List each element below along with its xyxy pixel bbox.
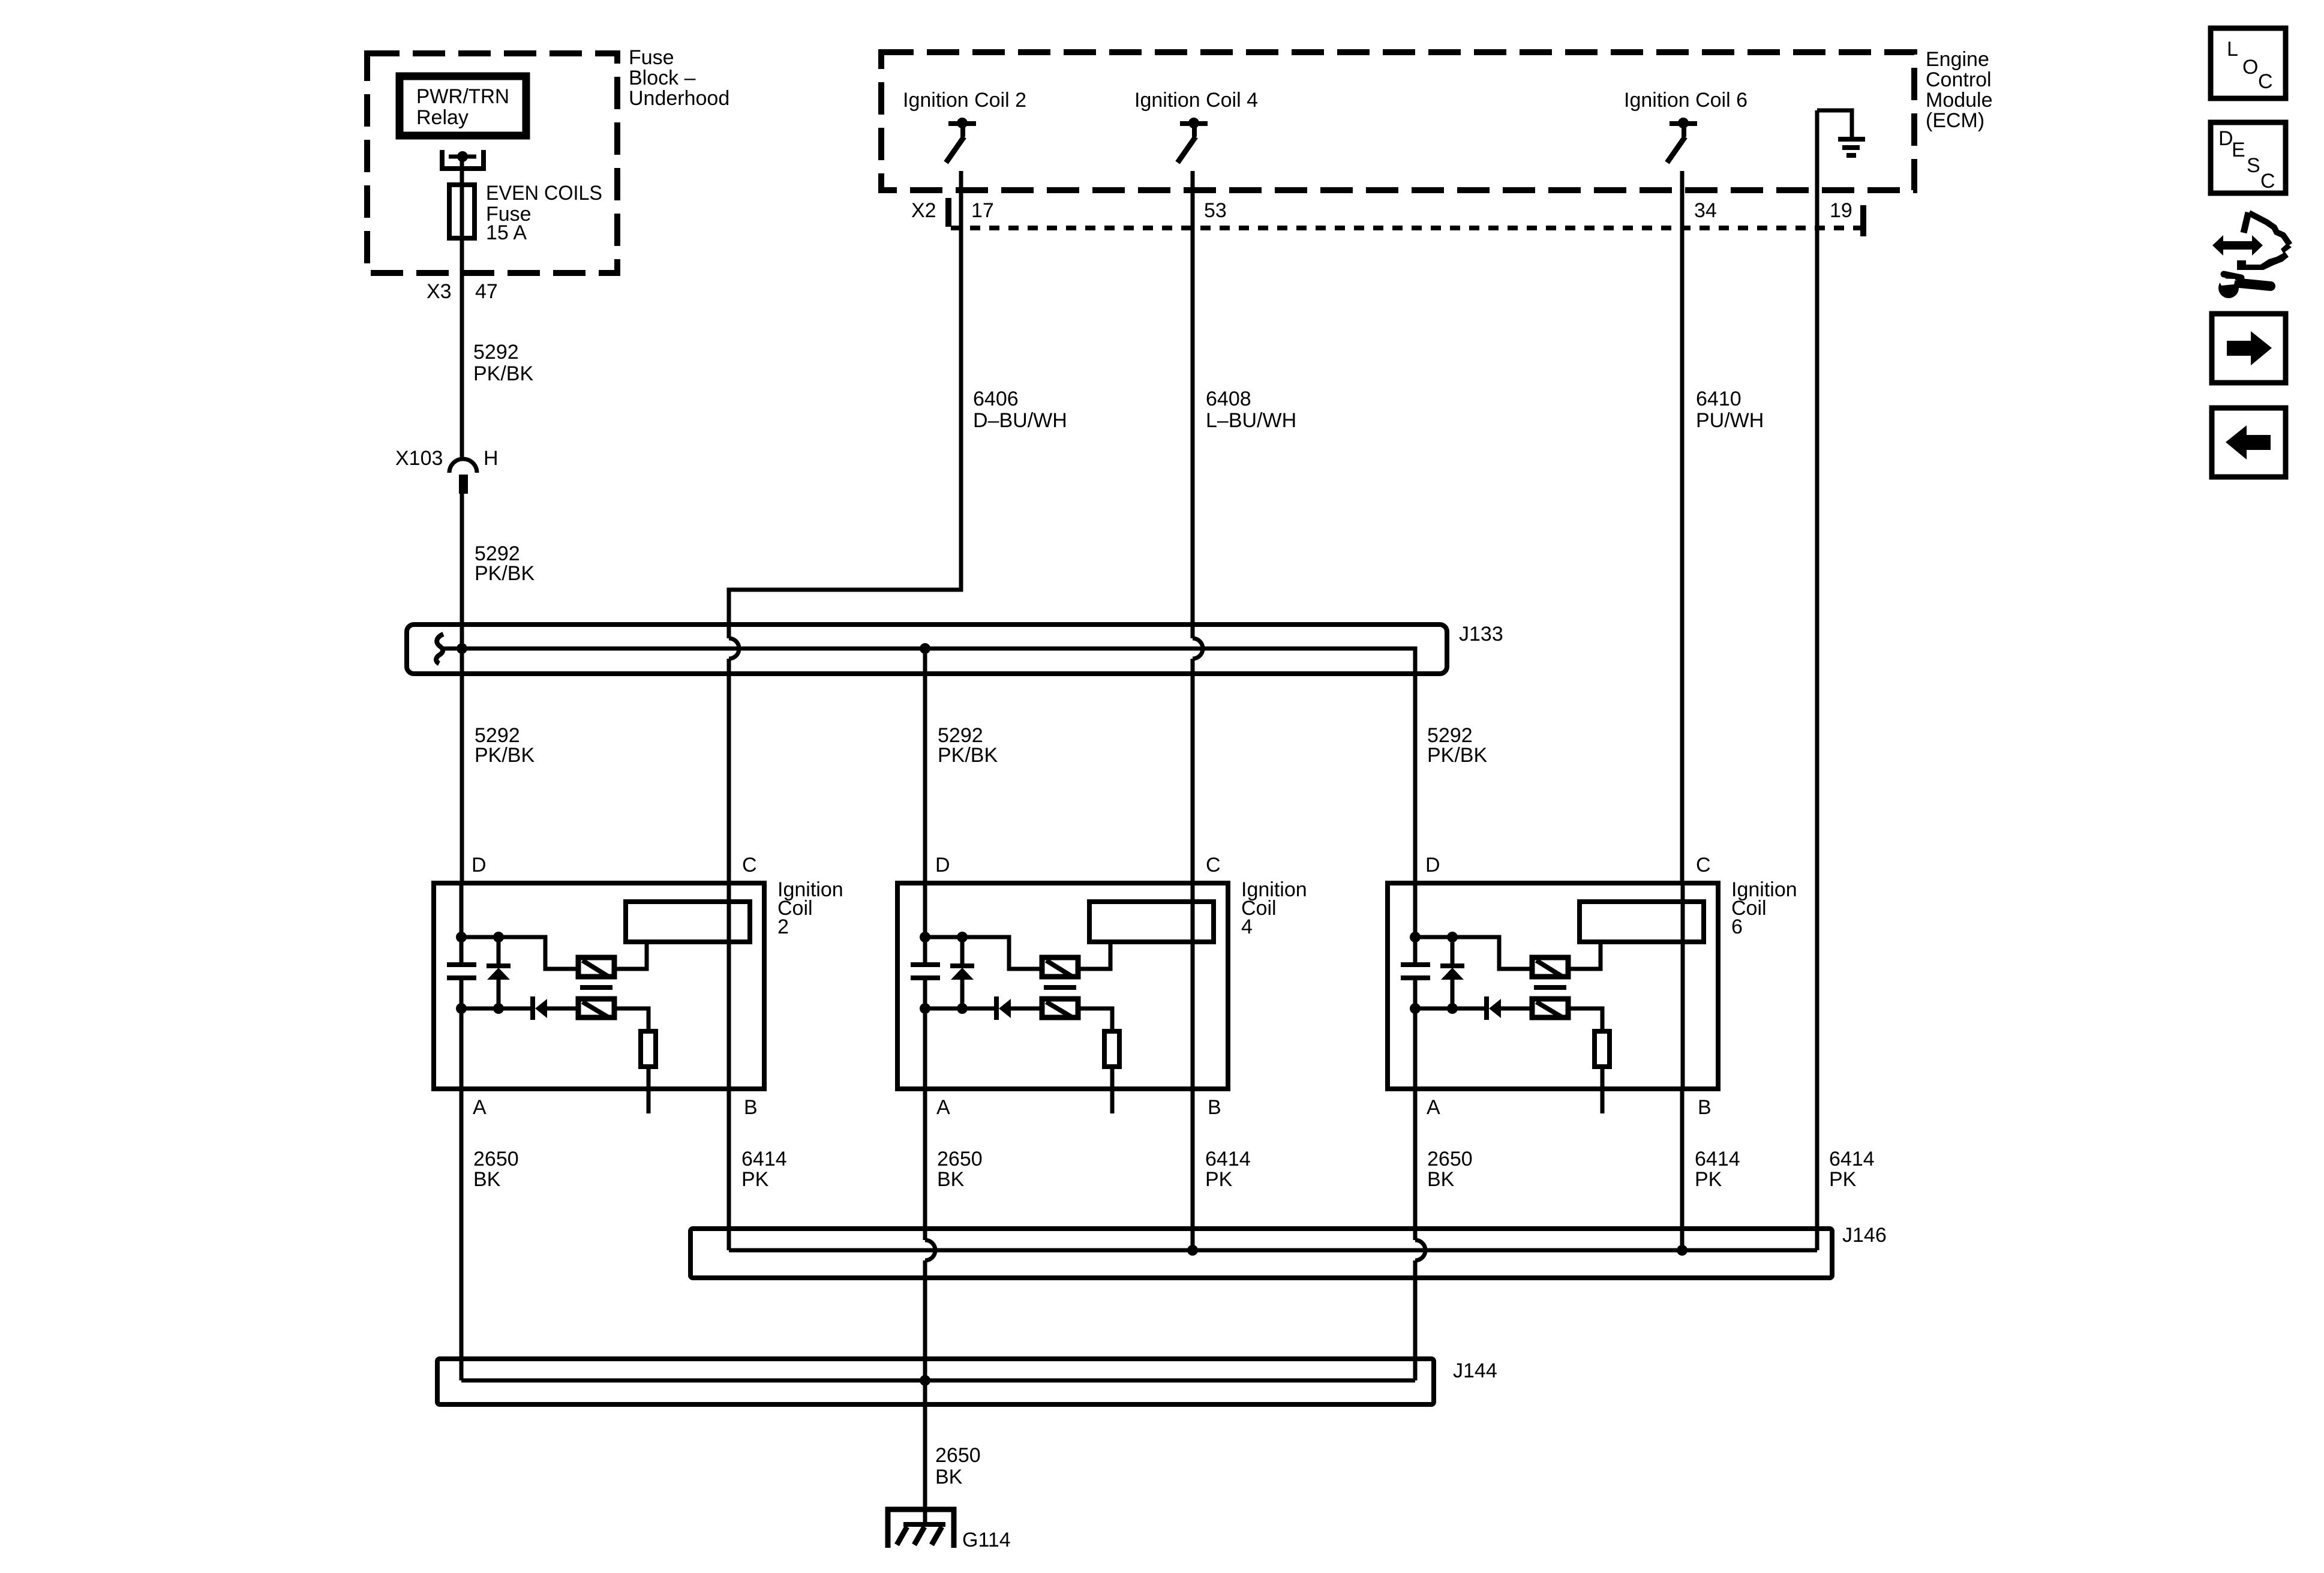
C to B through wire (1681, 883, 1685, 1089)
wire winding to secondary (1569, 942, 1601, 969)
wire winding to resistor (1595, 1031, 1610, 1067)
pin A wire inside (460, 1008, 464, 1089)
ECM driver Ignition Coil 6 (1624, 89, 1747, 163)
diagnostic hand-wrench icon (2212, 212, 2292, 298)
svg-text:BK: BK (1427, 1168, 1455, 1191)
wire label 2650 BK to ground (935, 1444, 981, 1488)
wire node to primary winding (461, 937, 577, 969)
svg-text:X2: X2 (911, 199, 936, 222)
svg-text:Control: Control (1926, 68, 1992, 91)
wire coil3 B 6414 PK to J146 (1682, 1089, 1740, 1250)
connector X3 pin 47 labels (427, 280, 498, 303)
coil 2 housing (434, 883, 764, 1089)
J144 bus wire (461, 1379, 1415, 1383)
svg-text:C: C (2258, 70, 2273, 93)
svg-text:G114: G114 (962, 1529, 1011, 1551)
fuse F1 EVEN COILS 15A (449, 182, 602, 244)
D feed wire inside (460, 883, 464, 937)
svg-text:47: 47 (475, 280, 498, 303)
zener diode (960, 937, 965, 965)
wire winding to resistor (615, 1008, 648, 1031)
svg-text:5292: 5292 (473, 341, 519, 364)
svg-text:BK: BK (935, 1466, 963, 1488)
svg-text:PK: PK (1829, 1168, 1857, 1191)
svg-text:6410: 6410 (1696, 388, 1742, 410)
diode (1484, 996, 1489, 1020)
node dots (1410, 932, 1421, 942)
svg-text:B: B (1208, 1096, 1221, 1119)
svg-text:PK/BK: PK/BK (938, 744, 998, 767)
wire 6410 PU/WH pin34 to coil3 C (1682, 171, 1764, 883)
svg-text:(ECM): (ECM) (1926, 109, 1984, 132)
wire coil2 A 2650 BK to J144 and G114, hop over J146 (925, 1089, 983, 1524)
ECM driver Ignition Coil 2 (903, 89, 1026, 163)
svg-text:PWR/TRN: PWR/TRN (416, 85, 509, 108)
svg-text:6406: 6406 (973, 388, 1019, 410)
wire label 5292 PK/BK upper (473, 341, 533, 385)
svg-text:Underhood: Underhood (629, 87, 729, 110)
svg-text:D–BU/WH: D–BU/WH (973, 409, 1067, 432)
wire relay to fuse (460, 157, 464, 185)
wire coil2 B 6414 PK to J146 (1193, 1089, 1251, 1250)
pin 19 label and tick (1830, 199, 1863, 236)
splice pack J133 body (407, 625, 1447, 674)
J133 bus line and branch to coil3 D (442, 649, 1415, 883)
svg-text:19: 19 (1830, 199, 1852, 222)
svg-text:A: A (473, 1096, 487, 1119)
ECM dashed box (881, 52, 1914, 190)
svg-text:S: S (2247, 154, 2260, 177)
svg-text:PK/BK: PK/BK (473, 362, 533, 385)
ECM internal ground symbol (1817, 110, 1865, 155)
svg-text:EVEN COILS: EVEN COILS (486, 182, 602, 205)
capacitor C (923, 937, 927, 962)
svg-text:B: B (744, 1096, 758, 1119)
node dots (456, 932, 467, 942)
wire node to primary winding (1415, 937, 1531, 969)
wire coil3 A 2650 BK to J144, hop over J146 (1415, 1089, 1473, 1380)
svg-text:D: D (472, 854, 487, 876)
primary winding box (578, 957, 614, 977)
lower wire node to diode (1415, 1007, 1484, 1011)
spark output stub (1110, 1067, 1115, 1113)
ignition coil 4 assembly (897, 854, 1307, 1119)
wire node to primary winding (925, 937, 1041, 969)
svg-text:2650: 2650 (473, 1148, 519, 1170)
core lines (1534, 985, 1566, 990)
svg-text:J133: J133 (1459, 623, 1503, 646)
zener diode (1451, 937, 1455, 965)
secondary winding rectangle (626, 902, 750, 942)
spark output stub (1601, 1067, 1605, 1113)
node dots (920, 932, 930, 942)
svg-text:L–BU/WH: L–BU/WH (1206, 409, 1296, 432)
wire X103 to J133 to coil D, 5292 PK/BK (460, 494, 464, 883)
svg-text:2: 2 (777, 915, 789, 938)
lower wire node to diode (461, 1007, 530, 1011)
coil 6 housing (1388, 883, 1718, 1089)
svg-text:O: O (2242, 56, 2258, 79)
svg-text:A: A (936, 1096, 950, 1119)
ignition coil 2 assembly (434, 854, 843, 1119)
X2 connector dotted line (951, 226, 1863, 230)
J133 bus open-end curl (436, 634, 443, 664)
C to B through wire (727, 883, 731, 1089)
DESC icon box (2211, 122, 2286, 193)
wire 6406 D-BU/WH pin17 to coil1 C with hop over J133 (729, 171, 1067, 883)
svg-text:PK: PK (741, 1168, 769, 1191)
spark output stub (647, 1067, 651, 1113)
svg-text:53: 53 (1204, 199, 1227, 222)
ignition coil 6 assembly (1388, 854, 1797, 1119)
svg-text:4: 4 (1241, 915, 1253, 938)
C to B through wire (1191, 883, 1195, 1089)
svg-text:PK: PK (1205, 1168, 1233, 1191)
fuse block label (629, 46, 729, 110)
secondary drive winding box (1532, 999, 1568, 1017)
svg-text:B: B (1698, 1096, 1712, 1119)
svg-text:34: 34 (1694, 199, 1717, 222)
svg-text:6408: 6408 (1206, 388, 1251, 410)
svg-text:6414: 6414 (741, 1148, 787, 1170)
svg-text:D: D (2218, 127, 2233, 150)
capacitor C (1413, 937, 1418, 962)
svg-text:6414: 6414 (1205, 1148, 1251, 1170)
svg-text:Module: Module (1926, 89, 1993, 112)
secondary winding rectangle (1580, 902, 1704, 942)
lower wire node to diode (925, 1007, 994, 1011)
junction dot J133 to coil1 D (457, 643, 467, 654)
svg-text:2650: 2650 (935, 1444, 981, 1467)
fuse block dashed box (367, 53, 617, 273)
junction dot J146 coil3 B (1677, 1245, 1688, 1256)
svg-text:Engine: Engine (1926, 48, 1989, 71)
svg-text:C: C (1696, 854, 1711, 876)
primary winding box (1042, 957, 1078, 977)
wire 6408 L-BU/WH pin53 to coil2 C with hop over J133 (1193, 171, 1296, 883)
svg-text:Block –: Block – (629, 67, 696, 89)
secondary drive winding box (1042, 999, 1078, 1017)
svg-text:D: D (1425, 854, 1440, 876)
resistor (641, 1031, 656, 1067)
svg-text:2650: 2650 (937, 1148, 983, 1170)
forward arrow icon box (2212, 314, 2286, 383)
svg-text:E: E (2232, 139, 2245, 161)
svg-text:PK/BK: PK/BK (475, 562, 535, 585)
svg-text:C: C (2260, 170, 2275, 193)
svg-text:2650: 2650 (1427, 1148, 1473, 1170)
svg-text:L: L (2227, 38, 2238, 61)
ECM driver Ignition Coil 4 (1134, 89, 1258, 163)
capacitor C (460, 937, 464, 962)
splice pack J144 body (437, 1359, 1434, 1404)
resistor (1104, 1031, 1119, 1067)
svg-text:Ignition Coil 2: Ignition Coil 2 (903, 89, 1026, 112)
wire J133 to coil2 D, 5292 PK/BK (923, 649, 927, 883)
ECM label (1926, 48, 1993, 132)
wire label 6414 PK for ECM pin 19 wire (1829, 1148, 1875, 1191)
svg-text:X103: X103 (395, 447, 443, 470)
svg-text:A: A (1427, 1096, 1440, 1119)
svg-text:Fuse: Fuse (629, 46, 674, 69)
splice pack J146 body (690, 1229, 1832, 1278)
secondary winding rectangle (1089, 902, 1214, 942)
svg-text:6: 6 (1731, 915, 1743, 938)
wire label 5292 PK/BK branch 3 (1427, 724, 1487, 767)
svg-text:X3: X3 (427, 280, 452, 303)
svg-text:6414: 6414 (1829, 1148, 1875, 1170)
diode (994, 996, 999, 1020)
pin A wire inside (1413, 1008, 1418, 1089)
wire 6414 PK pin19 ground to J146 (1815, 110, 1819, 1250)
junction dot J133 to coil2 D (920, 643, 930, 654)
relay output terminal connector (442, 150, 484, 169)
wire label 5292 PK/BK branch 1 (475, 724, 535, 767)
diode (530, 996, 535, 1020)
svg-text:J144: J144 (1453, 1359, 1497, 1382)
core lines (1044, 985, 1076, 990)
svg-text:6414: 6414 (1695, 1148, 1740, 1170)
wire coil1 A 2650 BK to J144 (461, 1089, 519, 1380)
wire winding to resistor (1079, 1008, 1112, 1031)
svg-text:J146: J146 (1842, 1224, 1887, 1247)
J146 bus wire (729, 1248, 1817, 1253)
ground G114 (888, 1509, 1011, 1551)
D feed wire inside (1413, 883, 1418, 937)
core lines (580, 985, 612, 990)
back arrow icon box (2212, 408, 2286, 477)
svg-text:Ignition Coil 4: Ignition Coil 4 (1134, 89, 1258, 112)
svg-text:Ignition Coil 6: Ignition Coil 6 (1624, 89, 1747, 112)
svg-text:H: H (484, 447, 499, 470)
LOC icon box (2211, 28, 2286, 98)
svg-text:PK: PK (1695, 1168, 1722, 1191)
secondary drive winding box (578, 999, 614, 1017)
svg-text:PK/BK: PK/BK (475, 744, 535, 767)
wire winding to secondary (615, 942, 647, 969)
D feed wire inside (923, 883, 927, 937)
connector X2 label and tick (911, 198, 948, 227)
svg-text:15 A: 15 A (486, 221, 527, 244)
svg-text:Relay: Relay (416, 106, 469, 129)
wire fuse to X103, 5292 PK/BK (460, 238, 464, 460)
coil 4 housing (897, 883, 1228, 1089)
svg-text:PU/WH: PU/WH (1696, 409, 1764, 432)
svg-text:PK/BK: PK/BK (1427, 744, 1487, 767)
wire winding to secondary (1079, 942, 1110, 969)
pin A wire inside (923, 1008, 927, 1089)
relay K1 PWR/TRN (400, 76, 526, 136)
svg-text:C: C (1206, 854, 1221, 876)
svg-text:17: 17 (971, 199, 994, 222)
svg-text:BK: BK (937, 1168, 965, 1191)
svg-text:D: D (935, 854, 950, 876)
wire label 5292 PK/BK above J133 (475, 542, 535, 585)
wire label 5292 PK/BK branch 2 (938, 724, 998, 767)
junction dot J144 coil2 A to ground (920, 1375, 930, 1386)
wire coil1 B 6414 PK to J146 (729, 1089, 787, 1250)
svg-text:BK: BK (473, 1168, 501, 1191)
zener diode (497, 937, 501, 965)
svg-text:C: C (742, 854, 757, 876)
inline connector X103 cavity H (395, 447, 499, 494)
junction dot J146 coil2 B (1187, 1245, 1198, 1256)
primary winding box (1532, 957, 1568, 977)
